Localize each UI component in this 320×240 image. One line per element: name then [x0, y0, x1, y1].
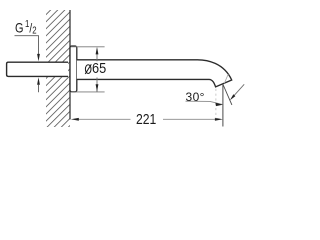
221 dimension line: [78, 118, 131, 120]
wall face line: [69, 10, 71, 119]
Ø65 arrow up: [96, 47, 99, 55]
Ø65 extension line top: [71, 46, 105, 48]
221 extension line at spout tip: [222, 84, 224, 127]
flange (escutcheon): [70, 46, 77, 92]
221 left arrow: [71, 118, 79, 121]
wall hatching: [0, 5, 191, 132]
spout outlet inner edge: [224, 74, 228, 83]
arrow onto diagonal from upper right: [234, 84, 244, 95]
G1/2 leader: underline and arrow to pipe: [15, 36, 39, 55]
text Ø 65: [92, 61, 106, 77]
text G 1/2: [15, 19, 37, 37]
G 1/2 inlet pipe: [7, 62, 68, 76]
text 30°: [186, 90, 205, 104]
30° leader underline and arrow to vertical line: [186, 101, 223, 104]
30° flow diagonal line: [223, 84, 232, 105]
Ø65 arrow down: [96, 84, 99, 92]
diameter symbol of Ø65 label: [85, 64, 91, 74]
G1/2 arrow down to pipe top: [37, 54, 40, 62]
Ø65 dimension line with arrows: [96, 54, 98, 92]
text 221: [136, 112, 156, 128]
arrow up to pipe bottom: [37, 77, 40, 85]
dashed vertical from outlet lip: [215, 89, 217, 119]
spout body: [77, 60, 232, 87]
221 right arrow: [215, 118, 223, 121]
Ø65 extension line bottom: [71, 91, 105, 93]
